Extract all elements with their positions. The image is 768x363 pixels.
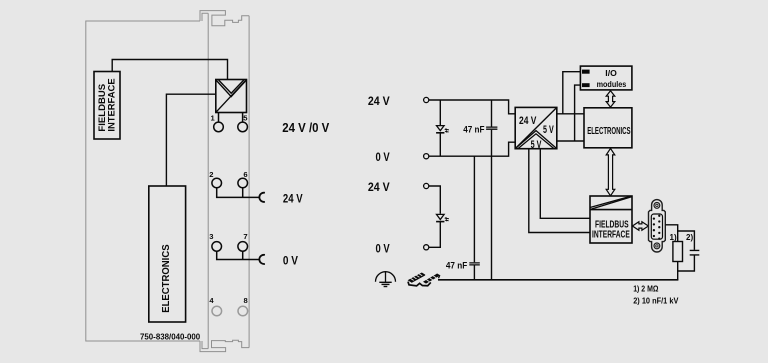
fieldbus interface box (module) [94, 72, 120, 140]
wire: DC/DC 5V to electronics (upper) [557, 113, 584, 115]
DC/DC converter U1 [515, 107, 557, 151]
DIN rail symbol [408, 273, 440, 286]
capacitor C1 47nF [463, 100, 497, 280]
capacitor C2 47nF (to rail) [446, 156, 480, 280]
terminal 1 [214, 113, 224, 132]
terminal circle 24V field [424, 183, 429, 188]
svg-text:2): 2) [686, 233, 693, 242]
wire: DC/DC 5V to electronics (lower) [557, 140, 584, 142]
fieldbus interface box (right) [590, 196, 632, 243]
capacitor C3 (10nF/1kV) [690, 250, 700, 255]
DB9 connector J1 [649, 200, 666, 252]
wire: DC/DC bottom 5V to fieldbus interface (upper) [540, 149, 590, 219]
svg-text:8: 8 [244, 296, 248, 305]
svg-text:750-838/040-000: 750-838/040-000 [140, 332, 201, 342]
svg-text:1): 1) [670, 233, 677, 242]
LED D2 (field status) [429, 186, 449, 247]
svg-text:2) 10 nF/1 kV: 2) 10 nF/1 kV [633, 295, 678, 305]
svg-text:24 V: 24 V [519, 115, 537, 127]
terminal 8 (unused) [238, 306, 248, 316]
module inner edge [207, 13, 209, 348]
svg-text:7: 7 [243, 232, 247, 241]
wire riser to I/O modules pad 1 [563, 72, 583, 114]
svg-text:modules: modules [597, 79, 627, 89]
resistor R1 (2 MOhm) [673, 242, 683, 262]
cage clamp contact 24V [259, 193, 265, 202]
terminal 2 [212, 178, 222, 188]
wire terminals 3/7 to clamp [217, 251, 260, 260]
I/O modules box [580, 66, 632, 90]
svg-text:6: 6 [243, 170, 247, 179]
svg-text:INTERFACE: INTERFACE [106, 78, 116, 131]
wires termination to rail [678, 255, 695, 280]
svg-text:I/O: I/O [605, 69, 617, 78]
svg-text:INTERFACE: INTERFACE [592, 229, 630, 241]
arrow electronics/fieldbus interface [606, 148, 615, 195]
module right edge [248, 16, 250, 348]
wire 0V rail [429, 142, 515, 156]
terminal circle 24V [424, 97, 429, 102]
power supply unit (module) [216, 80, 247, 113]
terminal circle 0V field [424, 245, 429, 250]
terminal 3 [212, 242, 222, 252]
electronics box (right) [584, 108, 632, 148]
svg-text:3: 3 [209, 232, 213, 241]
wire terminals 2/6 to clamp [217, 188, 260, 198]
svg-text:24 V: 24 V [283, 194, 303, 206]
top DIN-rail clip profile [200, 11, 249, 26]
ground rail (shield) [438, 279, 678, 281]
electronics box (module) [149, 186, 186, 322]
svg-text:1) 2 MΩ: 1) 2 MΩ [633, 284, 658, 294]
wire riser to I/O modules pad 2 [575, 85, 583, 141]
arrow fieldbus interface/DB9 [632, 222, 648, 231]
terminal circle 0V [424, 154, 429, 159]
LED D1 (status) [436, 100, 449, 156]
terminal 7 [238, 242, 248, 252]
svg-text:0 V: 0 V [283, 256, 298, 268]
svg-text:5 V: 5 V [543, 124, 554, 136]
wire: DC/DC bottom 5V to fieldbus interface (lower) [529, 149, 590, 233]
svg-text:47 nF: 47 nF [463, 125, 484, 136]
terminal 5 [238, 113, 248, 132]
cage clamp contact 0V [259, 255, 265, 264]
terminal 6 [238, 178, 248, 188]
wire: electronics to power supply [166, 94, 215, 186]
svg-text:24 V: 24 V [368, 180, 390, 194]
svg-text:ELECTRONICS: ELECTRONICS [587, 126, 631, 137]
wire 24V rail [429, 100, 515, 114]
wire DB9 to termination network [665, 225, 694, 250]
svg-text:47 nF: 47 nF [446, 260, 468, 270]
svg-text:0 V: 0 V [376, 150, 390, 164]
svg-text:0 V: 0 V [376, 241, 390, 255]
svg-text:ELECTRONICS: ELECTRONICS [161, 244, 172, 313]
svg-text:24 V: 24 V [368, 94, 390, 108]
arrow electronics/IO modules [606, 91, 615, 107]
module outline 750-838 [86, 11, 249, 352]
bottom DIN-rail clip profile [200, 340, 249, 351]
terminal 4 (unused) [212, 306, 222, 316]
svg-text:24 V /0 V: 24 V /0 V [282, 121, 330, 135]
svg-text:2: 2 [209, 170, 213, 179]
wire: fieldbus interface to power supply [112, 60, 227, 80]
earth symbol [376, 271, 396, 287]
